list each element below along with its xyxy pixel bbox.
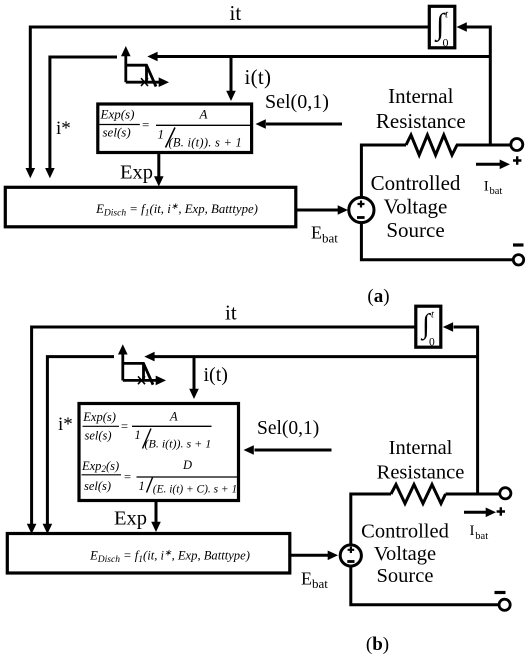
- svg-text:1: 1: [139, 479, 145, 493]
- integrator U1 (a): [429, 6, 455, 48]
- saturation block curve (b): [124, 363, 154, 384]
- svg-text:1: 1: [135, 428, 141, 442]
- svg-text:i*: i*: [58, 414, 73, 435]
- wire i* from saturation output down to E_Disch box (b): [47, 357, 114, 525]
- integrator U1 (b): [416, 306, 441, 347]
- wire I_bat arrow (b): [464, 511, 486, 514]
- svg-text:sel(s): sel(s): [85, 429, 112, 443]
- wire resistor to + terminal (a): [456, 144, 511, 147]
- resistor R internal (a): [406, 135, 457, 155]
- saturation block x marker (a): [141, 78, 148, 86]
- wire i(t) branch into transfer-function box (a): [230, 57, 233, 92]
- svg-text:(E. i(t) + C). s + 1: (E. i(t) + C). s + 1: [153, 484, 237, 496]
- transfer function box (b): [79, 404, 239, 501]
- svg-text:Controlled: Controlled: [371, 171, 461, 195]
- svg-text:=: =: [124, 470, 131, 484]
- wire E_bat output arrow into voltage source (a): [296, 209, 338, 212]
- wire voltage source to - terminal (b): [351, 566, 499, 604]
- svg-text:Internal: Internal: [388, 84, 453, 108]
- svg-text:A: A: [169, 410, 178, 424]
- saturation block x marker (b): [138, 376, 145, 384]
- svg-text:Internal: Internal: [389, 437, 453, 459]
- svg-text:I: I: [470, 523, 475, 539]
- wire resistor to + terminal (b): [446, 493, 500, 496]
- wire Exp from transfer box into E_Disch box (a): [157, 153, 160, 177]
- svg-text:sel(s): sel(s): [84, 479, 111, 493]
- svg-text:(B. i(t)). s + 1: (B. i(t)). s + 1: [169, 136, 243, 150]
- svg-text:Controlled: Controlled: [361, 521, 449, 543]
- svg-text:it: it: [230, 1, 242, 25]
- svg-text:Source: Source: [377, 565, 434, 587]
- terminal - (a): [513, 255, 523, 265]
- svg-text:bat: bat: [475, 531, 488, 542]
- svg-text:bat: bat: [490, 186, 503, 197]
- wire Sel arrow into transfer-function box (a): [266, 123, 342, 126]
- wire i(t) branch into transfer-function box (b): [193, 357, 196, 390]
- svg-text:Source: Source: [386, 218, 444, 242]
- svg-text:Exp2(s): Exp2(s): [81, 459, 119, 474]
- saturation block axes (b): [121, 353, 124, 380]
- wire voltage source to resistor (b): [351, 494, 391, 545]
- svg-text:sel(s): sel(s): [103, 125, 131, 140]
- wire into integrator (a): [467, 26, 491, 29]
- equation row1 A / (1/(B.i(t)).s+1) (b): [132, 425, 212, 427]
- wire right vertical (b): [476, 326, 479, 496]
- svg-text:i*: i*: [56, 118, 71, 139]
- svg-text:Exp: Exp: [114, 508, 147, 530]
- svg-text:Exp(s): Exp(s): [82, 410, 116, 424]
- svg-text:0: 0: [429, 337, 435, 349]
- wire current sense line to saturation (a): [157, 55, 490, 58]
- wire voltage source to resistor (a): [361, 145, 406, 197]
- svg-text:0: 0: [443, 36, 449, 50]
- wire Exp from transfer box into E_Disch box (b): [155, 502, 158, 523]
- wire I_bat arrow (a): [476, 163, 500, 166]
- wire into integrator (b): [454, 326, 478, 329]
- wire right vertical from battery + node to integrator (a): [489, 26, 492, 147]
- svg-text:(b): (b): [366, 634, 389, 655]
- svg-text:Resistance: Resistance: [377, 462, 465, 484]
- svg-text:Resistance: Resistance: [376, 109, 466, 133]
- svg-text:Sel(0,1): Sel(0,1): [265, 91, 329, 113]
- equation A / (1/(B.i(t)).s+1) (a): [156, 124, 251, 126]
- svg-text:i(t): i(t): [204, 364, 228, 386]
- svg-text:Voltage: Voltage: [374, 543, 436, 565]
- svg-text:it: it: [225, 301, 237, 325]
- svg-text:Sel(0,1): Sel(0,1): [257, 418, 319, 439]
- terminal + (a): [511, 139, 523, 151]
- svg-text:(B. i(t)). s + 1: (B. i(t)). s + 1: [145, 437, 212, 451]
- equation row2 D / (1/(E.i(t)+C).s+1) (b): [137, 476, 239, 478]
- terminal - (b): [499, 599, 510, 610]
- controlled voltage source circle (b): [340, 545, 361, 566]
- wire it feedback (b): [32, 327, 416, 525]
- svg-text:bat: bat: [312, 576, 328, 591]
- svg-text:=: =: [142, 117, 149, 132]
- svg-text:I: I: [484, 179, 489, 195]
- svg-text:D: D: [182, 458, 192, 472]
- wire it feedback (a): integrator output to E_Disch box: [30, 27, 429, 169]
- svg-text:Exp(s): Exp(s): [100, 107, 135, 122]
- wire Sel arrow into transfer-function box (b): [255, 449, 332, 452]
- transfer function box (a): [98, 104, 252, 153]
- svg-text:Voltage: Voltage: [384, 195, 448, 219]
- E_Disch function box (b): [7, 534, 290, 574]
- resistor R internal (b): [391, 485, 446, 504]
- svg-text:bat: bat: [322, 231, 338, 246]
- wire i* from saturation output down to E_Disch box (a): [50, 57, 117, 169]
- saturation block axes (a): [124, 55, 127, 82]
- terminal + (b): [500, 488, 511, 499]
- svg-text:E: E: [311, 223, 322, 243]
- svg-text:(a): (a): [367, 286, 389, 307]
- controlled voltage source circle (a): [349, 197, 374, 222]
- svg-text:E: E: [301, 569, 312, 589]
- svg-text:i(t): i(t): [245, 65, 272, 89]
- wire voltage source to - terminal (a): [361, 223, 513, 260]
- svg-text:1: 1: [158, 127, 165, 142]
- E_Disch function box (a): [5, 187, 296, 227]
- wire E_bat output arrow into voltage source (b): [290, 554, 328, 557]
- saturation block curve (a): [127, 65, 157, 86]
- svg-text:A: A: [199, 107, 208, 122]
- wire current sense line to saturation (b): [154, 355, 478, 358]
- svg-text:=: =: [121, 420, 128, 434]
- svg-text:Exp: Exp: [120, 162, 153, 184]
